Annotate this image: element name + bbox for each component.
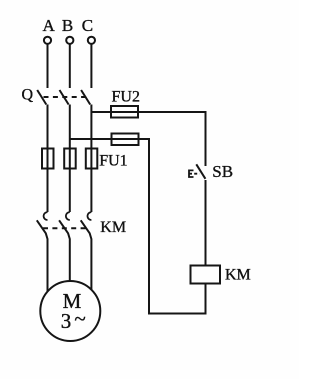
wire phase C from Q to KM contact (through fuse FU1c) [90, 105, 92, 213]
fuse FU1b body [64, 149, 76, 169]
switch Q pole 2 blade [60, 90, 69, 105]
svg-text:FU1: FU1 [99, 153, 127, 170]
wire phase B from terminal to switch Q [69, 44, 71, 88]
svg-text:SB: SB [212, 162, 233, 181]
KM main contact pole 3 fixed-contact arc [87, 212, 91, 220]
contactor coil KM body [191, 266, 221, 284]
wire phase B from Q to KM contact (through fuse FU1b) [69, 105, 71, 213]
KM main contact pole 2 blade [59, 220, 70, 295]
switch Q linkage dashed line [44, 96, 88, 98]
KM main contact pole 1 blade [37, 220, 48, 295]
svg-text:Q: Q [22, 87, 34, 104]
wire phase C from terminal to switch Q [90, 44, 92, 88]
pushbutton SB blade [196, 164, 205, 179]
wire control line 1 from phase C to SB [91, 112, 205, 166]
motor letter M [63, 289, 82, 313]
switch Q pole 1 blade [37, 90, 46, 105]
KM main contact pole 1 fixed-contact arc [44, 212, 48, 220]
svg-text:~: ~ [74, 307, 85, 331]
switch Q pole 3 blade [81, 90, 90, 105]
KM main contact pole 2 fixed-contact arc [66, 212, 70, 220]
terminal B label [62, 16, 73, 35]
svg-text:3: 3 [61, 309, 72, 333]
fuse FU2 label [112, 89, 140, 106]
KM main contact pole 3 blade [81, 220, 92, 295]
wire control line 2 from phase B to KM coil bottom [70, 139, 206, 314]
wire from SB to KM coil [205, 180, 207, 266]
pushbutton SB label [212, 162, 233, 181]
pushbutton SB actuator cap [189, 170, 194, 177]
svg-text:C: C [82, 16, 93, 35]
svg-text:FU2: FU2 [112, 89, 140, 106]
fuse FU2a body [111, 106, 138, 118]
contactor KM main contacts label [100, 219, 126, 236]
terminal C label [82, 16, 93, 35]
wire phase A from terminal to switch Q [47, 44, 49, 88]
svg-text:KM: KM [225, 267, 251, 284]
svg-text:KM: KM [100, 219, 126, 236]
fuse FU2b body [112, 134, 139, 146]
wire phase A from Q to KM contact (through fuse FU1a) [47, 105, 49, 213]
terminal B circle [66, 37, 73, 44]
terminal A label [43, 16, 56, 35]
KM main contacts linkage dashed line [43, 227, 87, 229]
svg-text:A: A [43, 16, 56, 35]
switch Q label [22, 87, 34, 104]
fuse FU1 label [99, 153, 127, 170]
motor M circle [40, 281, 100, 341]
fuse FU1c body [86, 149, 98, 169]
pushbutton SB actuator dashed link [189, 173, 200, 175]
fuse FU1a body [42, 149, 54, 169]
contactor coil KM label [225, 267, 251, 284]
svg-text:B: B [62, 16, 73, 35]
terminal A circle [44, 37, 51, 44]
terminal C circle [88, 37, 95, 44]
motor 3~ label [61, 307, 86, 334]
